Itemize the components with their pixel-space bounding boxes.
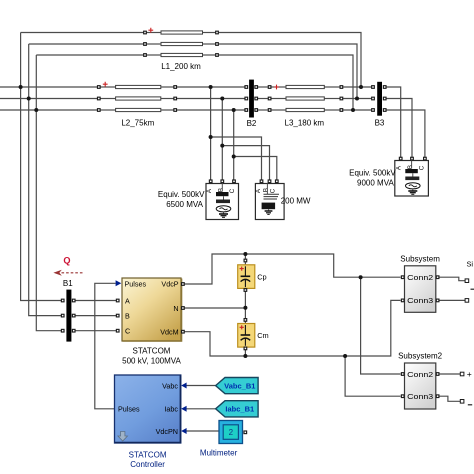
svg-text:Pulses: Pulses [118, 405, 140, 414]
svg-text:B: B [218, 188, 225, 192]
svg-text:C: C [270, 188, 277, 193]
svg-text:VdcM: VdcM [160, 328, 178, 337]
svg-text:C: C [229, 188, 236, 193]
svg-text:STATCOM: STATCOM [133, 347, 171, 356]
svg-text:C: C [125, 327, 130, 336]
svg-text:Pulses: Pulses [125, 279, 147, 288]
svg-text:Controller: Controller [130, 460, 165, 469]
svg-text:VdcP: VdcP [161, 280, 178, 289]
svg-text:Equiv. 500kV: Equiv. 500kV [158, 190, 205, 199]
svg-text:Si: Si [467, 260, 474, 269]
svg-text:+: + [467, 369, 472, 379]
svg-text:L2_75km: L2_75km [121, 119, 154, 128]
svg-text:Iabc: Iabc [164, 405, 178, 414]
svg-text:Vabc_B1: Vabc_B1 [224, 381, 255, 390]
svg-text:L1_200 km: L1_200 km [161, 62, 201, 71]
svg-text:B2: B2 [247, 119, 257, 128]
svg-text:Conn2: Conn2 [407, 273, 433, 282]
svg-text:STATCOM: STATCOM [129, 451, 167, 460]
svg-text:500 kV, 100MVA: 500 kV, 100MVA [122, 357, 181, 366]
svg-text:6500 MVA: 6500 MVA [166, 200, 203, 209]
svg-text:2: 2 [229, 428, 234, 437]
svg-text:Equiv. 500kV: Equiv. 500kV [349, 169, 396, 178]
svg-text:Conn3: Conn3 [407, 392, 433, 401]
svg-text:200 MW: 200 MW [281, 197, 311, 206]
svg-text:Conn2: Conn2 [407, 370, 433, 379]
svg-text:VdcPN: VdcPN [156, 427, 178, 436]
svg-text:B: B [407, 165, 414, 169]
svg-text:9000 MVA: 9000 MVA [357, 179, 394, 188]
svg-text:C: C [418, 165, 425, 170]
svg-text:Multimeter: Multimeter [200, 449, 238, 458]
svg-text:B: B [125, 312, 130, 321]
svg-text:Q: Q [63, 256, 70, 266]
svg-text:Vabc: Vabc [162, 381, 178, 390]
svg-text:Subsystem: Subsystem [400, 254, 440, 263]
svg-text:Iabc_B1: Iabc_B1 [225, 405, 254, 414]
svg-text:A: A [125, 296, 130, 305]
svg-text:B3: B3 [375, 119, 385, 128]
svg-text:L3_180 km: L3_180 km [285, 119, 325, 128]
svg-text:N: N [173, 304, 178, 313]
svg-text:Conn3: Conn3 [407, 296, 433, 305]
svg-text:Subsystem2: Subsystem2 [398, 352, 443, 361]
svg-text:Cp: Cp [257, 272, 266, 281]
svg-text:B: B [262, 188, 269, 192]
svg-text:B1: B1 [63, 279, 73, 288]
svg-text:Cm: Cm [257, 331, 269, 340]
